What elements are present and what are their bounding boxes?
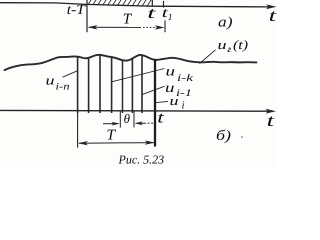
theta left arrow xyxy=(103,123,118,125)
ordinate u(i-n) xyxy=(77,57,79,114)
svg-text:б): б) xyxy=(216,128,231,144)
svg-text:θ: θ xyxy=(124,111,131,126)
svg-text:(t): (t) xyxy=(233,37,248,52)
sampled waveform u_g(t) xyxy=(5,55,257,70)
svg-text:u: u xyxy=(218,37,228,52)
ordinate 2 xyxy=(88,58,90,113)
svg-text:t-T: t-T xyxy=(67,3,86,18)
svg-text:i-n: i-n xyxy=(56,82,70,93)
ordinate u(i-k) xyxy=(111,57,113,113)
tick at t1 on axis xyxy=(163,1,165,8)
top axis arrowhead xyxy=(266,4,277,9)
svg-text:u: u xyxy=(46,73,56,88)
leader for u_g(t) xyxy=(200,50,216,64)
T dimension arrow (top) xyxy=(89,26,141,28)
theta extension line right xyxy=(133,112,135,128)
leader for u(i-1) xyxy=(142,86,165,94)
bottom time axis (b) xyxy=(0,109,269,112)
bottom axis arrowhead xyxy=(266,109,277,114)
svg-text:1: 1 xyxy=(168,13,173,23)
leader for u(i-n) xyxy=(63,71,78,77)
leader for u(i) xyxy=(156,101,168,102)
hatch right edge xyxy=(151,0,153,6)
theta right arrow (dashed tail) xyxy=(137,122,147,124)
svg-text:t: t xyxy=(267,111,277,130)
ordinate u(i-1) xyxy=(141,55,143,113)
hatched interval t-T..t xyxy=(87,0,153,6)
extension line below t1 xyxy=(164,20,166,32)
leader for u(i-k) xyxy=(112,69,165,82)
ordinate 6 xyxy=(131,58,133,113)
theta extension line left xyxy=(119,112,121,128)
svg-text:T: T xyxy=(107,128,117,144)
svg-text:u: u xyxy=(170,93,180,108)
speck xyxy=(241,136,243,138)
tick / extension line at t-T xyxy=(86,0,88,32)
svg-text:u: u xyxy=(166,65,176,80)
svg-text:t: t xyxy=(157,109,164,126)
svg-text:г: г xyxy=(228,45,232,55)
ordinate 5 xyxy=(122,60,124,113)
svg-text:t: t xyxy=(147,5,156,22)
top time axis (a) xyxy=(0,3,269,7)
T dimension arrow (bottom) xyxy=(79,142,154,145)
svg-text:i-k: i-k xyxy=(177,73,194,84)
svg-text:Рис. 5.23: Рис. 5.23 xyxy=(118,153,165,167)
svg-text:i: i xyxy=(182,100,185,112)
svg-text:t: t xyxy=(269,6,277,25)
ordinate u(i) thick, extended to T dimension xyxy=(154,60,156,147)
svg-text:а): а) xyxy=(218,15,233,31)
svg-text:T: T xyxy=(123,11,133,27)
ordinate 3 xyxy=(99,55,101,113)
T extension line left (bottom) xyxy=(77,113,79,148)
